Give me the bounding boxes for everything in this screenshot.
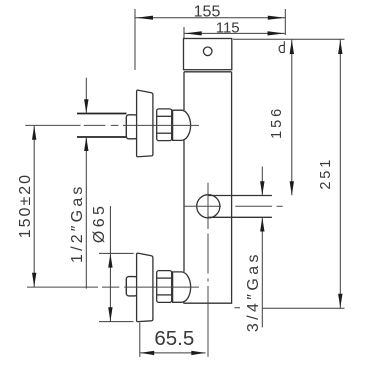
top valve centerline (25, 124, 199, 126)
bottom escutcheon flange (137, 253, 153, 322)
svg-text:115: 115 (216, 19, 240, 36)
dim 251 line (339, 40, 341, 308)
dim 155 line (136, 17, 286, 19)
arrow 251 bottom (338, 294, 342, 308)
arrow 115 left (185, 31, 202, 35)
svg-text:150±20: 150±20 (17, 173, 34, 238)
outlet pipe bottom line (208, 216, 272, 218)
dim 1/2 gas line lower (85, 137, 87, 289)
top mounting plate (184, 39, 232, 70)
bottom valve dome cap (173, 272, 191, 302)
top inlet pipe (77, 114, 127, 138)
bottom valve centerline (27, 286, 199, 288)
outlet vertical centerline (207, 183, 209, 357)
dim 65.5 line (140, 352, 206, 354)
body column (184, 72, 232, 303)
svg-text:Ø65: Ø65 (91, 203, 108, 243)
dim Ø65 line (109, 206, 111, 322)
dim 115 extension left (above plate) (183, 27, 185, 39)
top escutcheon flange (137, 90, 153, 157)
arrow 3/4 lower (up) (260, 218, 264, 232)
dim 155 extension right (284, 9, 286, 35)
top valve dome cap (173, 110, 191, 140)
dim Ø65 extension top (99, 252, 134, 254)
arrow 150±20 bottom (32, 273, 36, 287)
arrow Ø65 bottom (108, 307, 112, 321)
arrow 155 right (268, 16, 285, 20)
bottom coupler nut (126, 277, 137, 296)
dim 156 line (291, 40, 293, 196)
outlet pipe top line (208, 195, 272, 197)
arrow Ø65 top (108, 254, 112, 268)
label d mark (279, 41, 284, 52)
dim 150±20 line (33, 126, 35, 287)
arrow 150±20 top (32, 126, 36, 140)
outlet boss circle (197, 195, 220, 218)
svg-text:155: 155 (194, 3, 221, 20)
svg-text:65.5: 65.5 (154, 327, 194, 350)
plate screw hole (203, 47, 212, 56)
arrow 1/2 lower (up) (84, 137, 88, 151)
dim 3/4 pipe line upper (261, 167, 263, 196)
bottom extension line to right dim (235, 307, 345, 309)
svg-text:251: 251 (318, 157, 334, 190)
arrow 115 right (268, 31, 285, 35)
svg-text:1/2″Gas: 1/2″Gas (69, 183, 86, 263)
top extension line to right dims (233, 38, 345, 40)
outlet horizontal centerline (184, 205, 283, 207)
arrow 65.5 right (191, 351, 205, 355)
dim Ø65 extension bottom (99, 321, 134, 323)
arrow 251 top (338, 40, 342, 54)
dim 1/2 gas line upper (85, 78, 87, 114)
top valve hex nut (157, 109, 172, 141)
dim 3/4 pipe line lower (261, 218, 263, 328)
arrow 156 top (290, 40, 294, 54)
dim 155 extension left (134, 9, 136, 70)
top coupler nut (126, 115, 137, 139)
dim 65.5 extension left (139, 323, 141, 357)
arrow 1/2 upper (down) (84, 99, 88, 113)
svg-text:156: 156 (269, 106, 285, 139)
arrow 3/4 upper (down) (260, 181, 264, 195)
arrow 65.5 left (140, 351, 154, 355)
dim 115 line (185, 32, 285, 34)
svg-text:3/4″Gas: 3/4″Gas (245, 251, 262, 332)
arrow 156 bottom (290, 181, 294, 195)
bottom valve hex nut (157, 271, 172, 303)
arrow 155 left (136, 16, 153, 20)
